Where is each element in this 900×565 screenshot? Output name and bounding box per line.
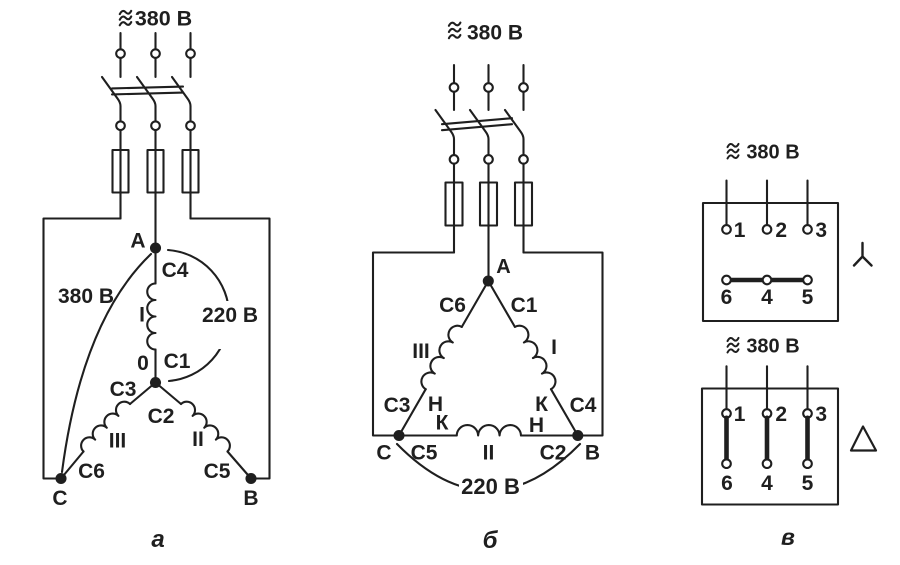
switch QS blade L2 b xyxy=(470,110,489,155)
svg-text:C6: C6 xyxy=(78,460,105,483)
svg-text:C2: C2 xyxy=(148,405,175,428)
wire box top-left (phase to C path) xyxy=(44,219,121,479)
winding II (diagram a) coil xyxy=(181,402,230,452)
wire box top-right (phase to B path) xyxy=(191,219,270,479)
svg-text:II: II xyxy=(192,428,204,451)
wire winding III to node C xyxy=(61,452,84,479)
svg-text:3: 3 xyxy=(815,403,827,426)
fuse FU1 b link wire xyxy=(453,183,455,226)
svg-text:в: в xyxy=(781,524,795,550)
svg-text:B: B xyxy=(243,487,258,510)
svg-text:C6: C6 xyxy=(439,294,466,317)
svg-text:C4: C4 xyxy=(162,259,189,282)
wire node C to winding II (diagram b) xyxy=(399,434,457,436)
svg-text:C5: C5 xyxy=(411,442,438,465)
wire supply phase 1 (star box) xyxy=(725,181,727,226)
shorting bar 1-6 (delta box) xyxy=(724,418,729,460)
node 0 (star point) xyxy=(151,378,160,387)
wire winding I to node B (diagram b) xyxy=(551,389,578,435)
wire node 0 to winding III xyxy=(130,383,156,405)
terminal 1 circle (delta box) xyxy=(722,409,731,418)
supply symbol ~380V (terminal box star) xyxy=(728,144,739,159)
fuse FU1 a body xyxy=(113,150,129,193)
wire supply phase 2 (delta box) xyxy=(766,366,768,409)
shorting bar 2-4 (delta box) xyxy=(765,418,770,460)
winding I (diagram b) coil xyxy=(515,326,556,390)
svg-text:C3: C3 xyxy=(110,378,137,401)
svg-text:6: 6 xyxy=(721,286,733,309)
wire phase L3 b upper xyxy=(522,65,524,83)
wire node A to winding III (diagram b) xyxy=(462,281,489,327)
terminal circle L3 a upper xyxy=(186,49,195,58)
wire phase L1 b upper xyxy=(453,65,455,83)
svg-text:C: C xyxy=(52,487,67,510)
terminal circle L1 a upper xyxy=(116,49,125,58)
wire L3 b below fuse xyxy=(522,226,524,253)
terminal 4 circle (star box) xyxy=(763,276,772,285)
terminal 1 circle (star box) xyxy=(722,225,731,234)
terminal 6 circle (star box) xyxy=(722,276,731,285)
shorting bar 3-5 (delta box) xyxy=(805,418,810,460)
svg-text:A: A xyxy=(130,230,145,253)
svg-text:380 В: 380 В xyxy=(467,22,523,45)
svg-text:6: 6 xyxy=(721,472,733,495)
wire winding II to node B (diagram b) xyxy=(521,434,578,436)
wire L1 b to fuse xyxy=(453,164,455,183)
switch contact circle L1 b xyxy=(450,155,459,164)
white mask for 220V label (diagram a) xyxy=(199,301,263,349)
terminal 2 circle (star box) xyxy=(763,225,772,234)
delta connection symbol xyxy=(851,427,876,451)
svg-text:Н: Н xyxy=(529,414,544,437)
switch contact circle L3 b xyxy=(519,155,528,164)
wire L3 a to switch xyxy=(189,58,191,77)
terminal circle L2 b upper xyxy=(484,83,493,92)
fuse FU1 a link wire xyxy=(119,150,121,193)
terminal box (delta) outline xyxy=(702,389,838,505)
terminal 4 circle (delta box) xyxy=(763,459,772,468)
wire L3 a to fuse xyxy=(189,130,191,150)
terminal circle L1 b upper xyxy=(450,83,459,92)
switch QS blade L3 b xyxy=(505,110,524,155)
fuse FU2 a body xyxy=(148,150,164,193)
winding I (diagram a) coil xyxy=(147,284,155,350)
svg-text:К: К xyxy=(436,412,449,435)
fuse FU2 b body xyxy=(480,183,497,226)
switch contact circle L2 b xyxy=(484,155,493,164)
wire node 0 to winding II xyxy=(156,383,182,405)
wire winding II to node B xyxy=(228,452,252,479)
terminal 3 circle (delta box) xyxy=(803,409,812,418)
switch QS b linkage bar upper xyxy=(442,118,512,124)
svg-text:380 В: 380 В xyxy=(58,285,114,308)
svg-text:C: C xyxy=(376,442,391,465)
svg-text:3: 3 xyxy=(815,219,827,242)
svg-text:5: 5 xyxy=(802,286,814,309)
wire phase L1 a upper xyxy=(119,33,121,49)
switch contact circle L3 a xyxy=(186,121,195,130)
wire L1 b below fuse xyxy=(453,226,455,253)
fuse FU3 b body xyxy=(515,183,532,226)
terminal circle L3 b upper xyxy=(519,83,528,92)
wire supply phase 2 (star box) xyxy=(766,181,768,226)
wire L1 a below fuse xyxy=(119,193,121,219)
wire winding III to node C (diagram b) xyxy=(399,389,426,435)
wire supply phase 3 (star box) xyxy=(806,181,808,226)
svg-text:а: а xyxy=(151,526,164,553)
svg-text:2: 2 xyxy=(775,219,787,242)
svg-text:380 В: 380 В xyxy=(746,142,799,164)
svg-text:C2: C2 xyxy=(540,442,567,465)
svg-text:220 В: 220 В xyxy=(202,304,258,327)
svg-text:C5: C5 xyxy=(204,460,231,483)
wire phase L2 b upper xyxy=(487,65,489,83)
switch QS blade L3 a xyxy=(172,77,191,121)
svg-text:C1: C1 xyxy=(164,350,191,373)
wire L3 a below fuse xyxy=(189,193,191,219)
winding III (diagram a) coil xyxy=(81,402,130,452)
fuse FU1 b body xyxy=(446,183,463,226)
supply symbol ~380V (diagram b) triple tilde xyxy=(449,23,461,39)
wire phase L2 a upper xyxy=(154,33,156,49)
terminal 5 circle (delta box) xyxy=(803,459,812,468)
svg-text:II: II xyxy=(483,442,495,465)
svg-text:1: 1 xyxy=(734,403,746,426)
wire L2 b to fuse xyxy=(487,164,489,183)
switch QS blade L1 a xyxy=(102,77,121,121)
svg-text:4: 4 xyxy=(761,472,773,495)
winding II (diagram b) coil xyxy=(457,425,521,435)
node A (diagram a) xyxy=(151,244,160,253)
node B (diagram b) xyxy=(573,431,582,440)
node A (diagram b) xyxy=(484,277,493,286)
switch QS blade L2 a xyxy=(137,77,156,121)
terminal 2 circle (delta box) xyxy=(763,409,772,418)
svg-text:C1: C1 xyxy=(511,294,538,317)
wire winding I to node 0 xyxy=(154,350,156,383)
svg-text:4: 4 xyxy=(761,286,773,309)
380V measurement curve A to C xyxy=(62,254,151,472)
wire L3 b to fuse xyxy=(522,164,524,183)
supply symbol ~380V (diagram a) triple tilde xyxy=(120,11,131,25)
node B (diagram a) xyxy=(247,474,256,483)
supply symbol ~380V (terminal box delta) xyxy=(728,338,739,353)
220V measurement arc C to B (diagram b) xyxy=(397,444,580,491)
switch QS a linkage bar lower xyxy=(112,93,183,95)
fuse FU3 a body xyxy=(183,150,199,193)
switch contact circle L1 a xyxy=(116,121,125,130)
winding III (diagram b) coil xyxy=(421,326,461,389)
star connection symbol xyxy=(854,243,872,266)
fuse FU2 a link wire xyxy=(154,150,156,193)
svg-text:К: К xyxy=(535,393,548,416)
wire supply phase 3 (delta box) xyxy=(806,366,808,409)
switch contact circle L2 a xyxy=(151,121,160,130)
wire L2 a to fuse xyxy=(154,130,156,150)
svg-text:B: B xyxy=(585,442,600,465)
terminal 6 circle (delta box) xyxy=(722,459,731,468)
svg-text:C3: C3 xyxy=(384,394,411,417)
terminal circle L2 a upper xyxy=(151,49,160,58)
wire L2 a below fuse xyxy=(154,193,156,249)
terminal box (star) outline xyxy=(703,203,838,321)
terminal 5 circle (star box) xyxy=(803,276,812,285)
svg-text:A: A xyxy=(496,256,510,278)
wire L1 a to fuse xyxy=(119,130,121,150)
node C (diagram b) xyxy=(395,431,404,440)
shorting bar 6-4-5 (star box) xyxy=(727,278,808,283)
svg-text:380 В: 380 В xyxy=(746,336,799,358)
wire L2 b below fuse xyxy=(487,226,489,282)
wire box top-right (diagram b) xyxy=(524,253,603,436)
wire node A to winding I xyxy=(154,248,156,284)
svg-text:I: I xyxy=(139,304,145,327)
svg-text:C4: C4 xyxy=(570,394,597,417)
wire L2 b to switch xyxy=(487,92,489,110)
node C (diagram a) xyxy=(57,474,66,483)
svg-text:III: III xyxy=(109,430,127,453)
svg-text:III: III xyxy=(412,340,430,363)
svg-text:2: 2 xyxy=(775,403,787,426)
wire L2 a to switch xyxy=(154,58,156,77)
wire L1 a to switch xyxy=(119,58,121,77)
wire node A to winding I (diagram b) xyxy=(488,281,515,327)
svg-text:380 В: 380 В xyxy=(135,7,192,31)
switch QS blade L1 b xyxy=(436,110,455,155)
white mask for 220V label (diagram b) xyxy=(459,477,523,500)
terminal 3 circle (star box) xyxy=(803,225,812,234)
fuse FU3 a link wire xyxy=(189,150,191,193)
svg-text:0: 0 xyxy=(137,352,149,375)
svg-text:б: б xyxy=(483,527,499,554)
svg-text:5: 5 xyxy=(802,472,814,495)
svg-text:I: I xyxy=(551,336,557,359)
fuse FU2 b link wire xyxy=(487,183,489,226)
220V measurement arc A to 0 xyxy=(168,250,229,381)
switch QS a linkage bar upper xyxy=(112,87,183,89)
wire phase L3 a upper xyxy=(189,33,191,49)
switch QS b linkage bar lower xyxy=(442,124,512,130)
wire L3 b to switch xyxy=(522,92,524,110)
fuse FU3 b link wire xyxy=(522,183,524,226)
wire L1 b to switch xyxy=(453,92,455,110)
svg-text:220 В: 220 В xyxy=(461,474,520,499)
wire box top-left (diagram b) xyxy=(373,253,454,436)
svg-text:1: 1 xyxy=(734,219,746,242)
wire supply phase 1 (delta box) xyxy=(725,366,727,409)
